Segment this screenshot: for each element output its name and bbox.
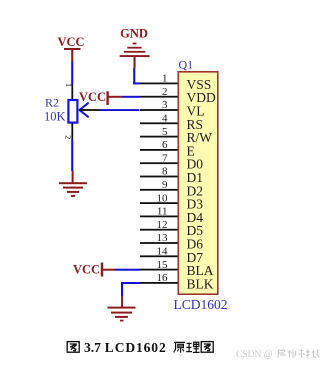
- pin 16 stub of Q1: [140, 272, 178, 284]
- power VCC (top-left, net to R2 pin 1): [57, 35, 84, 62]
- wire (R2 wiper to Q1 pin 3): [100, 109, 140, 111]
- part name LCD1602: [174, 297, 228, 312]
- power GND (top, net to Q1 pin 1): [120, 27, 150, 69]
- svg-text:2: 2: [162, 86, 168, 98]
- pin 2 of R2 (stub): [64, 123, 74, 140]
- svg-text:3: 3: [162, 99, 168, 111]
- hanzi TU (figure): [67, 342, 79, 353]
- svg-text:16: 16: [157, 272, 169, 284]
- pin 12 stub of Q1: [140, 219, 178, 231]
- pin 10 stub of Q1: [140, 192, 178, 204]
- pin 14 stub of Q1: [140, 246, 178, 258]
- svg-text:VCC: VCC: [57, 35, 84, 49]
- svg-text:VCC: VCC: [79, 90, 106, 104]
- pin name VSS: [187, 77, 212, 92]
- pin 4 stub of Q1: [140, 113, 178, 125]
- svg-text:VCC: VCC: [73, 263, 100, 277]
- svg-text:3.7: 3.7: [84, 340, 101, 355]
- hanzi YUAN (original): [174, 342, 185, 352]
- pin 1 stub of Q1: [140, 73, 178, 85]
- pin name RS: [187, 117, 204, 132]
- pin 15 stub of Q1: [140, 259, 178, 271]
- ground (bottom, below Q1 pin 16): [108, 296, 136, 322]
- ground (below R2): [59, 171, 87, 197]
- svg-text:2: 2: [64, 135, 73, 139]
- svg-text:10K: 10K: [44, 110, 66, 124]
- pin 5 stub of Q1: [140, 126, 178, 138]
- svg-text:Q1: Q1: [179, 58, 194, 72]
- pin 7 stub of Q1: [140, 152, 178, 164]
- wire (VCC to R2 pin 1): [71, 62, 73, 86]
- wire (VCC to Q1 pin 2): [122, 96, 140, 98]
- hanzi LI (logic): [186, 342, 199, 352]
- svg-text:14: 14: [157, 246, 169, 258]
- svg-text:12: 12: [157, 219, 168, 231]
- svg-text:LCD1602: LCD1602: [174, 297, 228, 312]
- svg-text:9: 9: [162, 179, 168, 191]
- pin 8 stub of Q1: [140, 166, 178, 178]
- pin name D1: [187, 170, 204, 185]
- svg-text:R2: R2: [45, 96, 59, 110]
- svg-text:13: 13: [157, 232, 169, 244]
- pin name D6: [187, 237, 204, 252]
- pin name D0: [187, 157, 204, 172]
- wire (Q1 pin 16 to ground): [121, 282, 140, 296]
- svg-text:8: 8: [162, 166, 168, 178]
- hanzi TU (figure): [201, 342, 213, 353]
- svg-text:BLK: BLK: [187, 276, 214, 291]
- svg-text:GND: GND: [120, 27, 148, 41]
- watermark CSDN: [236, 349, 319, 360]
- caption: 图 3.7 LCD1602 原理图: [67, 340, 213, 355]
- svg-text:1: 1: [162, 73, 168, 85]
- wire (VCC to Q1 pin 15): [115, 269, 140, 271]
- IC U1 LCD1602 body: [178, 72, 218, 294]
- pin name D2: [187, 183, 204, 198]
- power VCC (bottom-left, net to Q1 pin 15): [73, 263, 115, 277]
- svg-text:11: 11: [157, 206, 168, 218]
- power VCC (middle, net to Q1 pin 2): [79, 90, 122, 105]
- pin 2 stub of Q1: [140, 86, 178, 98]
- pin name R/W: [187, 130, 213, 145]
- pin name BLA: [187, 263, 214, 278]
- value label 10K: [44, 110, 66, 124]
- pin name D4: [187, 210, 204, 225]
- pin name VL: [187, 104, 205, 119]
- pin 3 of R2 wiper (stub): [80, 109, 100, 111]
- pin name BLK: [187, 276, 214, 291]
- pin name E: [187, 143, 195, 158]
- watermark hanzi (brand): [278, 349, 319, 357]
- resistor R2 10K (potentiometer body): [68, 100, 77, 123]
- value label R2: [45, 96, 59, 110]
- pin name D3: [187, 197, 204, 212]
- svg-text:4: 4: [162, 113, 168, 125]
- svg-text:15: 15: [157, 259, 169, 271]
- svg-text:7: 7: [162, 152, 168, 164]
- svg-text:LCD1602: LCD1602: [105, 340, 167, 355]
- pin 9 stub of Q1: [140, 179, 178, 191]
- pin name D7: [187, 250, 204, 265]
- svg-text:1: 1: [64, 83, 73, 87]
- svg-text:6: 6: [162, 139, 168, 151]
- wire (R2 pin 2 to ground): [71, 140, 73, 171]
- pin 6 stub of Q1: [140, 139, 178, 151]
- pin 3 stub of Q1: [140, 99, 178, 111]
- pin name VDD: [187, 90, 216, 105]
- svg-text:CSDN @: CSDN @: [236, 350, 273, 360]
- svg-text:10: 10: [157, 192, 169, 204]
- pin 1 of R2 (stub): [64, 83, 73, 100]
- svg-text:5: 5: [162, 126, 168, 138]
- designator Q1: [179, 58, 194, 72]
- pin name D5: [187, 223, 204, 238]
- wire (GND to Q1 pin 1): [133, 68, 140, 84]
- wiper arrow of R2: [80, 103, 89, 117]
- pin 13 stub of Q1: [140, 232, 178, 244]
- pin 11 stub of Q1: [140, 206, 178, 218]
